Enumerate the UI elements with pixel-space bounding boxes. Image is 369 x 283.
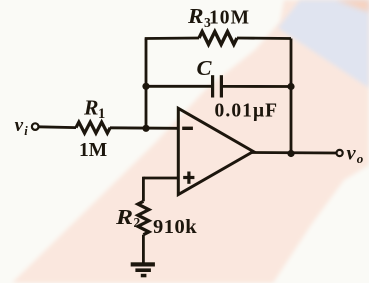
label v_i bbox=[15, 115, 29, 138]
label 910k bbox=[153, 216, 197, 238]
capacitor C bbox=[211, 75, 223, 97]
wire top branch left lead bbox=[145, 37, 199, 40]
wire top branch right lead bbox=[237, 37, 291, 40]
wire input from v_i to inverting input bbox=[39, 127, 179, 129]
svg-text:o: o bbox=[357, 151, 364, 166]
label 10M bbox=[209, 8, 250, 29]
svg-text:i: i bbox=[24, 124, 28, 138]
svg-text:R: R bbox=[115, 205, 133, 229]
wire noninverting input bbox=[143, 177, 178, 180]
label 0.01uF bbox=[215, 101, 279, 122]
wire output bbox=[251, 151, 336, 154]
label 1M bbox=[79, 140, 107, 161]
svg-text:10M: 10M bbox=[209, 8, 250, 29]
resistor R3 bbox=[199, 32, 237, 45]
label C bbox=[197, 56, 213, 80]
op-amp U1 bbox=[178, 108, 253, 194]
svg-text:R: R bbox=[83, 96, 99, 120]
svg-text:R: R bbox=[187, 4, 204, 28]
label v_o bbox=[347, 143, 364, 167]
node capacitor branch right junction bbox=[287, 83, 294, 90]
node capacitor branch left junction bbox=[142, 83, 149, 90]
svg-text:v: v bbox=[347, 143, 357, 165]
wire R2 to ground bbox=[142, 235, 145, 263]
svg-text:1M: 1M bbox=[79, 140, 107, 161]
svg-text:0.01μF: 0.01μF bbox=[215, 101, 279, 122]
terminal v_i bbox=[32, 123, 39, 130]
label R2 bbox=[115, 205, 141, 230]
svg-text:C: C bbox=[197, 56, 213, 80]
svg-text:1: 1 bbox=[98, 106, 105, 122]
resistor R1 bbox=[76, 122, 110, 133]
node output junction bbox=[287, 150, 294, 157]
svg-text:910k: 910k bbox=[153, 216, 197, 238]
ground bbox=[131, 262, 155, 277]
wire left feedback vertical bbox=[145, 39, 148, 129]
wire capacitor branch left bbox=[146, 85, 211, 88]
node at inverting input junction bbox=[142, 125, 149, 132]
wire down to R2 bbox=[142, 177, 145, 202]
svg-text:2: 2 bbox=[134, 215, 141, 230]
wire right feedback vertical bbox=[290, 39, 293, 154]
resistor R2 bbox=[138, 201, 149, 234]
label R1 bbox=[83, 96, 105, 123]
wire capacitor branch right bbox=[223, 85, 291, 88]
svg-text:v: v bbox=[15, 115, 24, 136]
terminal v_o bbox=[337, 150, 343, 156]
label R3 bbox=[187, 4, 211, 30]
